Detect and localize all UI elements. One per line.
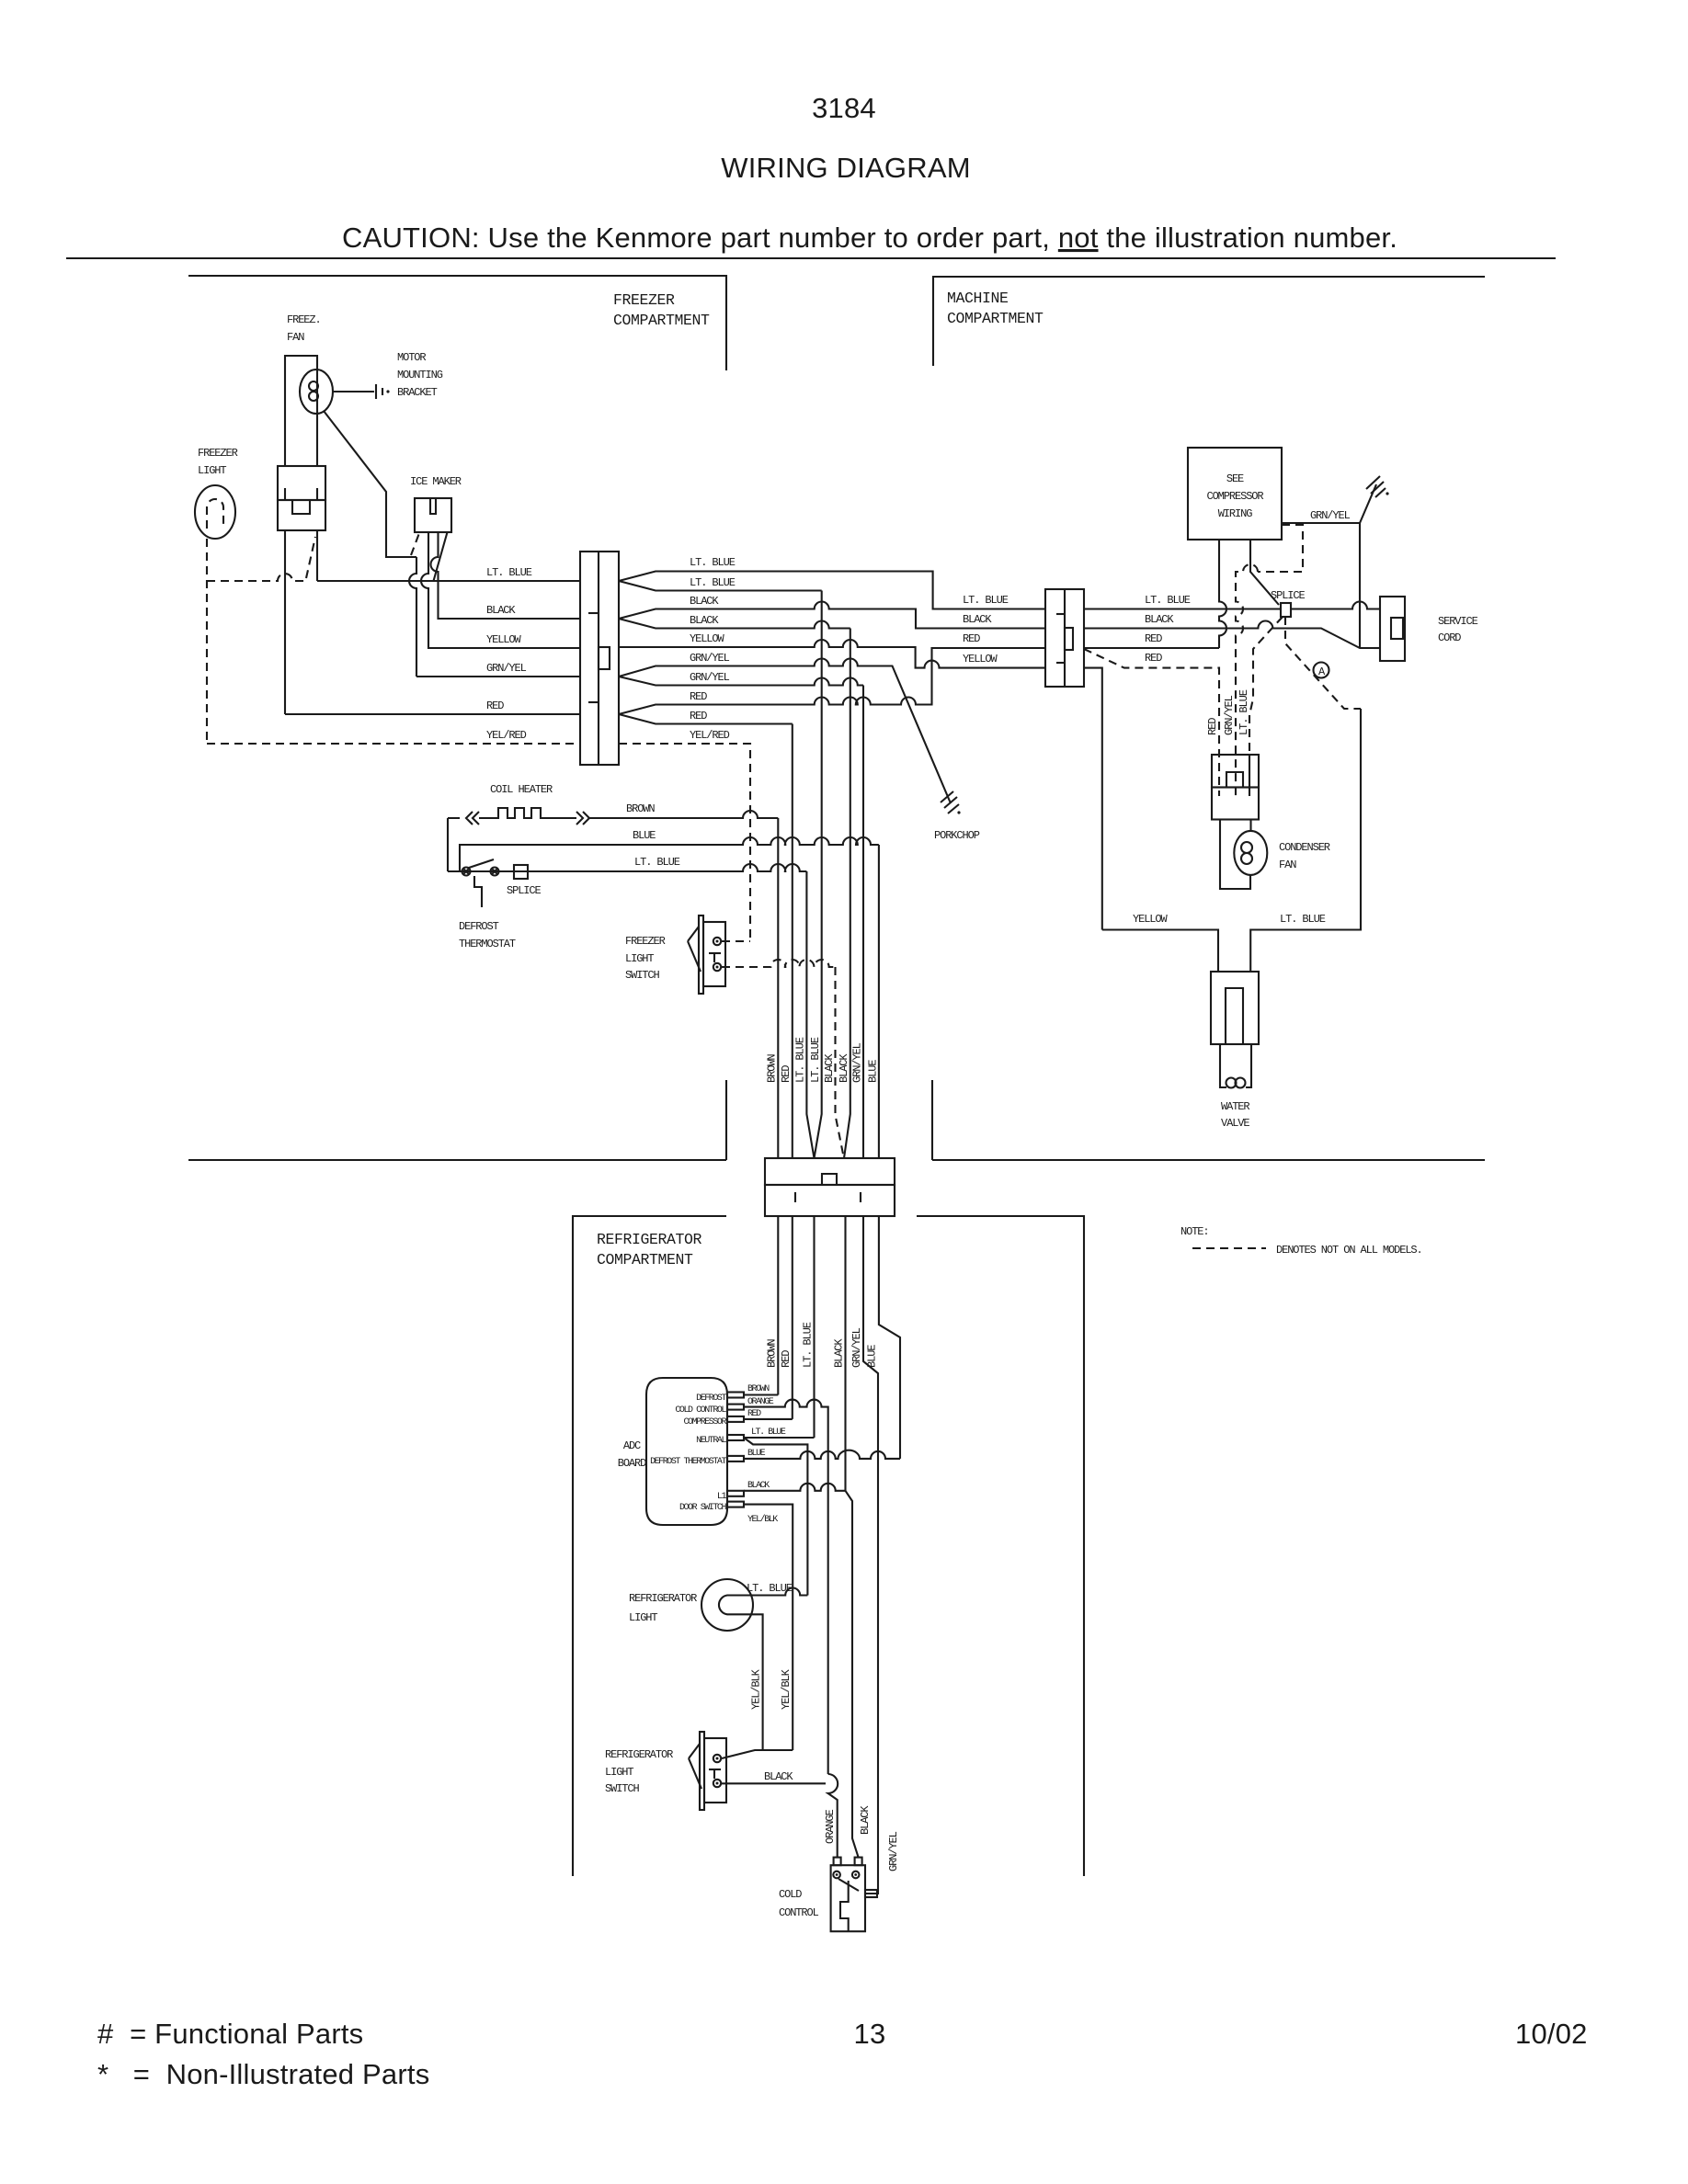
circled A — [1314, 663, 1329, 678]
svg-text:COMPARTMENT: COMPARTMENT — [597, 1251, 693, 1268]
connector C3 middle — [765, 1158, 895, 1185]
wire: dashed freezer light to yel/red — [206, 539, 208, 744]
water valve leads and coil — [1220, 1044, 1226, 1087]
svg-text:BLACK: BLACK — [823, 1053, 836, 1083]
svg-text:RED: RED — [486, 700, 504, 712]
wire: icemaker pin2 yellow down — [421, 532, 580, 648]
svg-text:YEL/BLK: YEL/BLK — [747, 1514, 778, 1525]
refrigerator light — [701, 1579, 753, 1631]
bundle verticals above connector — [777, 818, 779, 1158]
svg-text:GRN/YEL: GRN/YEL — [1310, 509, 1351, 522]
wire orange adc — [744, 1400, 828, 1774]
svg-text:COMPARTMENT: COMPARTMENT — [947, 310, 1044, 327]
svg-text:LT. BLUE: LT. BLUE — [794, 1037, 807, 1083]
wire lt.blue neutral adc — [744, 1437, 815, 1439]
wire: lt.blue freezer — [317, 580, 580, 582]
svg-text:BRACKET: BRACKET — [397, 386, 438, 399]
refrigerator compartment border — [573, 1216, 726, 1876]
svg-text:* = Non-Illustrated Parts: * = Non-Illustrated Parts — [97, 2058, 429, 2090]
svg-text:RED: RED — [963, 632, 980, 645]
svg-text:COLD CONTROL: COLD CONTROL — [675, 1405, 726, 1416]
svg-text:BLACK: BLACK — [963, 613, 992, 626]
svg-text:DEFROST: DEFROST — [696, 1393, 726, 1404]
orange jog into cold control — [828, 1774, 838, 1858]
svg-text:DENOTES NOT ON ALL MODELS.: DENOTES NOT ON ALL MODELS. — [1276, 1244, 1422, 1257]
heater left end — [447, 818, 449, 871]
svg-text:REFRIGERATOR: REFRIGERATOR — [629, 1592, 697, 1605]
svg-text:BLUE: BLUE — [866, 1345, 879, 1368]
svg-text:SPLICE: SPLICE — [1271, 589, 1306, 602]
freezer compartment border — [188, 276, 726, 370]
svg-text:DOOR SWITCH: DOOR SWITCH — [679, 1503, 727, 1513]
svg-text:MACHINE: MACHINE — [947, 290, 1009, 307]
svg-text:GRN/YEL: GRN/YEL — [690, 671, 730, 684]
wire: fan left lead — [284, 530, 286, 714]
svg-text:SWITCH: SWITCH — [605, 1782, 640, 1795]
wire black switch to cold control — [722, 1782, 826, 1784]
svg-text:LIGHT: LIGHT — [625, 952, 654, 965]
wire: red freezer — [285, 713, 580, 715]
svg-text:3184: 3184 — [812, 92, 876, 124]
wire: grn/yel freezer — [416, 676, 580, 677]
svg-text:LIGHT: LIGHT — [198, 464, 226, 477]
wire dashed switch top terminal — [722, 940, 750, 942]
svg-text:LT. BLUE: LT. BLUE — [690, 556, 736, 569]
svg-text:BOARD: BOARD — [618, 1457, 646, 1470]
svg-text:COIL HEATER: COIL HEATER — [490, 783, 553, 796]
svg-text:BROWN: BROWN — [766, 1054, 779, 1083]
svg-text:COMPARTMENT: COMPARTMENT — [613, 312, 710, 329]
svg-text:SEE: SEE — [1226, 472, 1244, 485]
connector C2 machine — [1045, 589, 1084, 687]
svg-text:FAN: FAN — [287, 331, 304, 344]
svg-text:RED: RED — [1206, 718, 1219, 735]
svg-text:10/02: 10/02 — [1515, 2018, 1588, 2050]
wire: fan right lead — [316, 530, 318, 581]
svg-text:RED: RED — [780, 1065, 793, 1083]
svg-text:FREEZER: FREEZER — [613, 291, 675, 309]
svg-text:LT. BLUE: LT. BLUE — [1280, 913, 1326, 926]
ice maker — [415, 498, 451, 532]
svg-text:WIRING DIAGRAM: WIRING DIAGRAM — [721, 152, 970, 184]
freezer fan motor — [300, 370, 333, 414]
svg-text:RED: RED — [747, 1409, 761, 1419]
wire lt.blue neutral freezer — [448, 864, 806, 871]
svg-text:GRN/YEL: GRN/YEL — [486, 662, 527, 675]
wire yel/blk junction to switch — [722, 1750, 793, 1758]
bundle verticals below connector — [777, 1216, 779, 1395]
freezer light — [195, 485, 235, 539]
blue below connector — [879, 1216, 900, 1459]
svg-text:RED: RED — [690, 690, 707, 703]
svg-text:RED: RED — [1145, 652, 1162, 665]
wire blue from adc area — [460, 837, 879, 871]
header rule — [66, 257, 1556, 259]
wire black L1 adc — [744, 1484, 846, 1491]
wire: icemaker pin3 black down — [431, 532, 581, 619]
svg-text:WATER: WATER — [1221, 1100, 1249, 1113]
svg-text:BLACK: BLACK — [838, 1053, 850, 1083]
wire: grn/yel vertical ground — [409, 557, 416, 677]
motor mounting bracket symbol — [333, 391, 374, 392]
wire red adc — [744, 1418, 793, 1420]
svg-text:THERMOSTAT: THERMOSTAT — [459, 938, 516, 950]
svg-text:RED: RED — [780, 1350, 793, 1368]
svg-text:PORKCHOP: PORKCHOP — [934, 829, 980, 842]
cold control — [831, 1865, 865, 1931]
wire lt.blue to splice — [1084, 608, 1281, 609]
svg-text:YELLOW: YELLOW — [486, 633, 522, 646]
svg-text:GRN/YEL: GRN/YEL — [850, 1327, 863, 1368]
wire brown adc — [744, 1393, 778, 1395]
freezer light switch — [699, 916, 703, 994]
svg-text:13: 13 — [854, 2018, 886, 2050]
svg-text:SERVICE: SERVICE — [1438, 615, 1478, 628]
svg-text:DEFROST THERMOSTAT: DEFROST THERMOSTAT — [650, 1457, 726, 1467]
svg-text:RED: RED — [1145, 632, 1162, 645]
svg-text:BROWN: BROWN — [766, 1339, 779, 1368]
svg-text:LT. BLUE: LT. BLUE — [1145, 594, 1191, 607]
svg-text:SPLICE: SPLICE — [507, 884, 542, 897]
svg-text:CONTROL: CONTROL — [779, 1906, 819, 1919]
svg-text:ORANGE: ORANGE — [747, 1397, 774, 1407]
svg-text:FREEZER: FREEZER — [198, 447, 238, 460]
svg-text:COMPRESSOR: COMPRESSOR — [1206, 490, 1263, 503]
svg-text:BLUE: BLUE — [633, 829, 656, 842]
see compressor wiring box — [1188, 448, 1282, 540]
splice machine — [1281, 603, 1291, 617]
svg-text:CORD: CORD — [1438, 631, 1461, 644]
grn/yel below connector — [863, 1216, 878, 1894]
fork grn/yel pair right of C1 — [619, 659, 951, 804]
svg-text:ORANGE: ORANGE — [824, 1809, 837, 1844]
svg-text:LT. BLUE: LT. BLUE — [1237, 689, 1250, 735]
wire red dashed to condenser fan — [1084, 649, 1219, 796]
svg-text:WIRING: WIRING — [1218, 507, 1253, 520]
svg-text:YEL/RED: YEL/RED — [486, 729, 527, 742]
svg-text:NEUTRAL: NEUTRAL — [696, 1436, 726, 1446]
svg-text:GRN/YEL: GRN/YEL — [1223, 695, 1236, 735]
svg-text:YELLOW: YELLOW — [1133, 913, 1169, 926]
svg-text:LT. BLUE: LT. BLUE — [634, 856, 680, 869]
svg-text:BLUE: BLUE — [747, 1449, 766, 1459]
svg-text:BROWN: BROWN — [626, 802, 655, 815]
svg-text:BLACK: BLACK — [764, 1770, 793, 1783]
service cord — [1380, 597, 1405, 661]
svg-text:LT. BLUE: LT. BLUE — [809, 1037, 822, 1083]
compressor right lead — [1250, 540, 1279, 605]
svg-text:YELLOW: YELLOW — [963, 653, 998, 665]
svg-text:BLUE: BLUE — [867, 1060, 880, 1083]
wire brown from heater — [589, 811, 778, 818]
wire red to compressor — [1084, 647, 1219, 649]
svg-text:ICE MAKER: ICE MAKER — [410, 475, 462, 488]
wire yellow frame out — [1084, 668, 1102, 930]
svg-text:REFRIGERATOR: REFRIGERATOR — [597, 1231, 702, 1248]
dashed grn/yel from compressor box — [1258, 525, 1303, 572]
svg-text:BLACK: BLACK — [859, 1805, 872, 1835]
svg-text:YEL/BLK: YEL/BLK — [780, 1668, 793, 1710]
wire blue adc — [744, 1450, 900, 1459]
svg-text:BLACK: BLACK — [833, 1338, 846, 1368]
svg-text:LIGHT: LIGHT — [629, 1611, 657, 1624]
dashed splice to condenser lt.blue — [1249, 617, 1283, 715]
fork black pair right of C1 — [619, 602, 1045, 629]
svg-text:FREEZER: FREEZER — [625, 935, 666, 948]
svg-text:BLACK: BLACK — [1145, 613, 1174, 626]
splice freezer — [514, 865, 528, 879]
svg-text:BROWN: BROWN — [747, 1384, 770, 1394]
fork lt.blue pair right of C1 — [619, 572, 1045, 609]
svg-text:LT. BLUE: LT. BLUE — [963, 594, 1009, 607]
svg-text:LT. BLUE: LT. BLUE — [751, 1428, 786, 1438]
condenser fan connector — [1212, 755, 1259, 788]
defrost thermostat lever — [469, 859, 494, 868]
defrost thermostat capillary — [474, 876, 482, 907]
svg-text:NOTE:: NOTE: — [1180, 1225, 1209, 1238]
svg-text:RED: RED — [690, 710, 707, 722]
water valve — [1211, 972, 1259, 1044]
condenser fan motor — [1234, 831, 1267, 875]
ADC board — [646, 1378, 727, 1525]
svg-text:BLACK: BLACK — [747, 1481, 770, 1491]
wire: icemaker pin1 dashed to ground node — [411, 533, 419, 555]
svg-text:CAUTION: Use the Kenmore part: CAUTION: Use the Kenmore part number to … — [342, 222, 1397, 254]
wire: ground from motor to bracket node — [324, 411, 416, 557]
wire dashed switch bottom to black bundle — [722, 960, 836, 967]
freezer fan housing — [285, 356, 317, 466]
svg-text:COLD: COLD — [779, 1888, 802, 1901]
svg-text:YEL/BLK: YEL/BLK — [750, 1668, 763, 1710]
wire yellow right of C1 — [619, 640, 1045, 668]
wire black to service cord — [1084, 621, 1374, 649]
wire neutral branch to refrigerator light — [744, 1438, 807, 1596]
wire yel/blk light down — [737, 1614, 763, 1750]
cold control right stub — [865, 1890, 877, 1897]
svg-text:LIGHT: LIGHT — [605, 1766, 633, 1779]
coil heater element — [448, 808, 589, 825]
svg-text:REFRIGERATOR: REFRIGERATOR — [605, 1748, 673, 1761]
machine frame bottom — [1102, 930, 1218, 973]
ADC pin stubs — [727, 1393, 744, 1398]
svg-text:ADC: ADC — [623, 1439, 641, 1452]
wire yel/blk door switch adc — [744, 1505, 793, 1750]
svg-text:YELLOW: YELLOW — [690, 632, 725, 645]
svg-text:CONDENSER: CONDENSER — [1279, 841, 1330, 854]
svg-text:MOUNTING: MOUNTING — [397, 369, 443, 381]
machine compartment border — [933, 277, 1485, 366]
wire: yel/red dashed to connector — [207, 743, 580, 745]
svg-text:VALVE: VALVE — [1221, 1117, 1249, 1130]
svg-text:FAN: FAN — [1279, 859, 1296, 871]
porkchop hatch — [941, 791, 953, 802]
grn/yel vertical to service junction — [1359, 523, 1361, 648]
svg-text:LT. BLUE: LT. BLUE — [690, 576, 736, 589]
wire: dashed freezer light branch to fan lead — [207, 574, 306, 581]
svg-text:LT. BLUE: LT. BLUE — [802, 1322, 815, 1368]
grn/yel wire to ground hatch — [1282, 484, 1376, 523]
defrost thermostat terminals — [462, 868, 471, 876]
svg-text:BLACK: BLACK — [486, 604, 516, 617]
black jog to cold control branch — [846, 1491, 859, 1858]
grn/yel hatch — [1366, 476, 1380, 489]
svg-text:# = Functional Parts: # = Functional Parts — [97, 2018, 363, 2050]
svg-text:YEL/RED: YEL/RED — [690, 729, 730, 742]
svg-text:BLACK: BLACK — [690, 595, 719, 608]
svg-text:L1: L1 — [717, 1492, 727, 1502]
connector C1 freezer — [580, 552, 619, 765]
svg-text:GRN/YEL: GRN/YEL — [887, 1831, 900, 1871]
dashed splice to A path — [1285, 617, 1361, 709]
compressor left lead — [1219, 540, 1226, 648]
svg-text:FREEZ.: FREEZ. — [287, 313, 321, 326]
fork red pair right of C1 — [619, 648, 1045, 714]
wire lt.blue light — [737, 1588, 807, 1596]
wire: icemaker pin4 diagonal to lt.blue — [434, 532, 448, 581]
svg-text:GRN/YEL: GRN/YEL — [851, 1042, 864, 1083]
svg-text:GRN/YEL: GRN/YEL — [690, 652, 730, 665]
svg-text:BLACK: BLACK — [690, 614, 719, 627]
svg-text:SWITCH: SWITCH — [625, 969, 660, 982]
wire yel/red dashed right of C1 — [619, 744, 750, 941]
fan connector block — [278, 466, 325, 500]
svg-text:LT. BLUE: LT. BLUE — [747, 1582, 793, 1595]
condenser fan motor loop — [1220, 820, 1250, 890]
svg-text:MOTOR: MOTOR — [397, 351, 426, 364]
refrigerator light switch — [700, 1732, 704, 1810]
svg-text:DEFROST: DEFROST — [459, 920, 499, 933]
svg-text:LT. BLUE: LT. BLUE — [486, 566, 532, 579]
svg-text:COMPRESSOR: COMPRESSOR — [683, 1417, 726, 1428]
